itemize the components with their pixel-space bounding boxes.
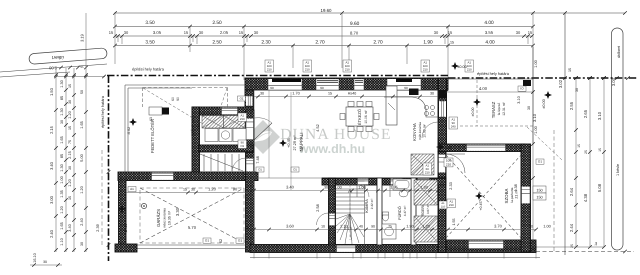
hall door tag xyxy=(444,158,453,167)
svg-text:90: 90 xyxy=(270,86,274,90)
svg-text:10.06 m²: 10.06 m² xyxy=(364,109,368,123)
door gap stairs west xyxy=(329,214,335,226)
hall door arc xyxy=(446,154,465,173)
svg-text:7.48: 7.48 xyxy=(256,156,260,163)
svg-text:1.20: 1.20 xyxy=(422,225,429,229)
wall interior horizontal xyxy=(322,178,446,185)
svg-text:NAPPALI: NAPPALI xyxy=(299,132,304,151)
svg-text:90: 90 xyxy=(404,86,408,90)
svg-text:építési hely határa: építési hely határa xyxy=(100,95,105,128)
wall bottom south xyxy=(250,245,536,253)
svg-text:fa lépcső: fa lépcső xyxy=(497,103,501,116)
garage cross diagonal 2 xyxy=(140,188,244,243)
right capsule utkert xyxy=(612,28,624,250)
road line with ticks xyxy=(0,64,107,72)
szelfogo closet 2 xyxy=(224,116,246,129)
svg-text:2.33: 2.33 xyxy=(449,182,453,189)
dim row overall 19.60 line xyxy=(115,12,625,14)
window tag 1 xyxy=(265,60,274,72)
svg-text:15: 15 xyxy=(528,30,533,35)
nappali i5 face line xyxy=(254,177,322,179)
svg-text:60: 60 xyxy=(171,97,175,101)
kitchen stove xyxy=(409,89,419,96)
window top 3 xyxy=(354,79,364,90)
svg-text:15: 15 xyxy=(568,68,572,72)
left cols top tick line xyxy=(56,76,105,78)
svg-text:1.20: 1.20 xyxy=(68,179,72,186)
svg-text:3.10: 3.10 xyxy=(597,111,602,120)
svg-text:O1: O1 xyxy=(538,160,542,164)
svg-text:1.00: 1.00 xyxy=(543,225,550,229)
svg-text:3.10: 3.10 xyxy=(517,96,521,103)
door gap interior 2 xyxy=(391,179,403,185)
svg-text:30: 30 xyxy=(529,225,533,229)
garderob closet top xyxy=(414,180,438,205)
garage west wall xyxy=(119,180,127,245)
furdo shower xyxy=(382,224,396,239)
dining chairs top xyxy=(348,102,354,107)
svg-text:30: 30 xyxy=(575,88,579,92)
svg-text:15: 15 xyxy=(183,188,187,192)
roof diagonal dashed xyxy=(527,127,562,160)
svg-text:4.47 m²: 4.47 m² xyxy=(403,206,407,217)
svg-text:1.20: 1.20 xyxy=(60,206,64,213)
svg-text:1.90: 1.90 xyxy=(406,225,413,229)
wall east kitchen xyxy=(438,78,447,144)
kitchen wall corner block xyxy=(439,90,447,98)
svg-text:30: 30 xyxy=(430,92,434,96)
svg-text:15: 15 xyxy=(184,30,189,35)
svg-text:2.05: 2.05 xyxy=(220,30,229,35)
svg-text:2.40: 2.40 xyxy=(49,229,54,238)
svg-text:30: 30 xyxy=(199,30,204,35)
svg-text:15: 15 xyxy=(80,65,84,69)
svg-text:3.19: 3.19 xyxy=(80,33,85,42)
szoba level star xyxy=(475,192,483,200)
roof dashed bottom right xyxy=(536,251,634,253)
svg-text:210: 210 xyxy=(425,170,430,174)
svg-text:1.65: 1.65 xyxy=(60,136,64,143)
west wall tags xyxy=(238,113,247,122)
svg-text:Ø .30: Ø .30 xyxy=(124,224,128,233)
svg-text:30: 30 xyxy=(254,30,259,35)
svg-text:210: 210 xyxy=(267,67,272,71)
inner face west wall xyxy=(253,90,255,245)
svg-text:KAMRA: KAMRA xyxy=(365,199,369,213)
svg-text:-0.02: -0.02 xyxy=(127,127,131,135)
right boundary vertical line xyxy=(564,13,566,255)
svg-text:O1: O1 xyxy=(238,239,242,243)
garage A1 tag xyxy=(128,187,136,192)
svg-text:2.44: 2.44 xyxy=(569,223,574,232)
svg-text:16.10: 16.10 xyxy=(33,253,37,263)
furdo tub xyxy=(393,179,411,190)
nappali level star xyxy=(279,139,287,147)
svg-text:5.00: 5.00 xyxy=(80,154,84,161)
porch column xyxy=(162,108,169,115)
garage dim row xyxy=(126,192,250,194)
roof dashed vertical right xyxy=(553,130,555,252)
svg-text:4.05 m²: 4.05 m² xyxy=(196,119,200,130)
wall kamra east xyxy=(377,178,382,245)
svg-text:2.10: 2.10 xyxy=(340,225,347,229)
svg-text:30: 30 xyxy=(245,226,249,230)
garage cross diagonal 1 xyxy=(140,188,244,243)
svg-text:15: 15 xyxy=(239,30,244,35)
svg-text:O1: O1 xyxy=(258,167,262,171)
right dim col x576 xyxy=(575,78,577,247)
szoba diag dashed xyxy=(446,155,521,238)
svg-text:3.60: 3.60 xyxy=(286,224,295,229)
svg-text:FEDETT ELŐTÉR: FEDETT ELŐTÉR xyxy=(150,119,155,153)
svg-text:63: 63 xyxy=(149,117,153,121)
svg-text:10.92 m²: 10.92 m² xyxy=(423,123,427,137)
window gap szoba north xyxy=(467,145,506,151)
furdo wc xyxy=(383,213,389,221)
svg-text:85: 85 xyxy=(60,154,64,158)
kitchen east window xyxy=(439,101,446,117)
porch roof dashed rect xyxy=(143,87,228,89)
dim row3 ticks xyxy=(113,34,534,38)
window gap szoba east xyxy=(522,187,531,204)
svg-text:4.00: 4.00 xyxy=(484,20,494,26)
porch hip dashes xyxy=(143,88,208,127)
dining chairs bottom xyxy=(348,127,354,132)
svg-text:210: 210 xyxy=(449,203,454,207)
svg-text:15: 15 xyxy=(109,30,114,35)
svg-text:30: 30 xyxy=(434,30,439,35)
wall szelfogo south xyxy=(199,145,253,152)
porch outline xyxy=(124,85,126,172)
svg-text:GARÁZS: GARÁZS xyxy=(156,209,161,227)
svg-text:IO: IO xyxy=(520,87,524,91)
svg-text:150: 150 xyxy=(536,189,542,193)
watermark logo diamond xyxy=(246,120,280,154)
svg-text:2.64: 2.64 xyxy=(569,187,574,196)
szoba entry star xyxy=(436,143,444,151)
svg-text:3.40: 3.40 xyxy=(68,224,72,231)
door gap garage north xyxy=(152,173,174,180)
svg-text:2.39: 2.39 xyxy=(96,224,100,231)
wall szelfogo west xyxy=(192,107,200,173)
svg-text:4.38: 4.38 xyxy=(514,184,518,191)
svg-text:1.30: 1.30 xyxy=(60,164,64,171)
svg-text:1.50: 1.50 xyxy=(49,87,54,96)
svg-text:A1: A1 xyxy=(130,187,134,191)
svg-text:85: 85 xyxy=(60,96,64,100)
garage dashed rect xyxy=(140,188,244,243)
svg-text:90: 90 xyxy=(371,225,375,229)
bottom O1 tags xyxy=(203,238,211,243)
window top 4 xyxy=(387,79,421,90)
window top 2 xyxy=(316,79,339,90)
dim row2 line xyxy=(115,26,533,28)
svg-text:SZOBA: SZOBA xyxy=(504,188,509,203)
window top 1 xyxy=(268,79,302,90)
interior door arcs xyxy=(357,185,430,197)
svg-text:+0.45: +0.45 xyxy=(443,146,452,150)
dining table xyxy=(346,107,373,126)
interior dim row y190 xyxy=(254,190,438,192)
svg-text:30: 30 xyxy=(68,166,72,170)
right level star xyxy=(544,91,552,99)
szoba ne tag xyxy=(536,159,544,164)
svg-text:90: 90 xyxy=(176,97,180,101)
svg-text:30: 30 xyxy=(80,242,84,246)
svg-text:TERASZ: TERASZ xyxy=(491,101,496,118)
kitchen counter xyxy=(384,97,438,117)
west wall upper window xyxy=(246,96,253,106)
svg-text:15: 15 xyxy=(68,196,72,200)
wall szelfogo north xyxy=(192,107,253,115)
svg-text:210: 210 xyxy=(305,67,310,71)
svg-text:210: 210 xyxy=(441,205,446,208)
svg-text:30: 30 xyxy=(43,260,47,264)
svg-text:4.52: 4.52 xyxy=(316,124,320,131)
svg-text:150: 150 xyxy=(536,196,542,200)
stairs winder fan xyxy=(336,214,364,244)
svg-text:3.40: 3.40 xyxy=(49,161,54,170)
svg-text:5.70: 5.70 xyxy=(188,225,197,230)
garage south edge xyxy=(115,244,250,246)
svg-text:±0.00: ±0.00 xyxy=(542,99,546,108)
svg-text:2.40: 2.40 xyxy=(80,218,84,225)
svg-text:1a: 1a xyxy=(594,242,598,246)
svg-text:25: 25 xyxy=(570,244,574,248)
svg-text:3.50: 3.50 xyxy=(145,20,155,26)
interior dim row y228 xyxy=(254,229,536,231)
svg-text:1.65: 1.65 xyxy=(60,222,64,229)
svg-text:KONYHA: KONYHA xyxy=(412,123,417,141)
wall szoba west xyxy=(438,152,446,253)
svg-text:210: 210 xyxy=(423,67,428,71)
svg-text:útkert: útkert xyxy=(51,54,64,60)
dim row overall ticks xyxy=(113,11,627,15)
dim row4 line xyxy=(115,45,533,47)
svg-text:1.00: 1.00 xyxy=(60,176,64,183)
svg-text:2.55: 2.55 xyxy=(569,101,574,110)
door gap interior 1 xyxy=(358,179,369,185)
svg-text:30: 30 xyxy=(60,120,64,124)
building limit line horizontal xyxy=(107,75,448,77)
svg-text:1 késle: 1 késle xyxy=(616,164,620,176)
svg-text:építési hely határa: építési hely határa xyxy=(477,71,510,76)
svg-text:1.00: 1.00 xyxy=(334,186,341,190)
svg-text:±0.00: ±0.00 xyxy=(471,108,475,117)
terrace level star xyxy=(473,98,481,106)
bottom ext drops xyxy=(253,253,255,259)
stairs side line xyxy=(364,185,366,245)
window tag 4 xyxy=(421,60,430,72)
svg-text:30: 30 xyxy=(260,92,264,96)
svg-text:15: 15 xyxy=(450,41,454,45)
szelfogo door arc xyxy=(232,158,246,172)
furdo basin xyxy=(399,190,408,197)
wall garage north xyxy=(118,172,258,181)
svg-text:5.00: 5.00 xyxy=(48,66,57,71)
porch level star xyxy=(129,118,137,126)
svg-text:50: 50 xyxy=(80,90,84,94)
left dim col x66 xyxy=(65,68,67,252)
svg-text:1.30: 1.30 xyxy=(60,108,64,115)
svg-text:1.30: 1.30 xyxy=(60,80,64,87)
terrace west dashed xyxy=(476,80,478,126)
svg-text:30: 30 xyxy=(191,188,195,192)
door gap szoba west xyxy=(439,155,446,173)
svg-text:FÜRDŐ: FÜRDŐ xyxy=(397,206,402,220)
svg-text:±0.00: ±0.00 xyxy=(457,65,466,69)
svg-text:2.15: 2.15 xyxy=(49,125,54,134)
svg-text:40: 40 xyxy=(359,225,363,229)
svg-text:O1: O1 xyxy=(293,167,297,171)
svg-text:+0.45: +0.45 xyxy=(287,138,291,148)
szelfogo closet 1 xyxy=(202,116,224,129)
entry steps xyxy=(203,154,205,171)
szoba west wall tag xyxy=(447,199,456,208)
svg-text:3.30: 3.30 xyxy=(175,207,180,216)
svg-text:O1: O1 xyxy=(205,239,209,243)
svg-text:15: 15 xyxy=(328,92,332,96)
terrace dim 4.00 xyxy=(446,91,533,93)
svg-text:2.50: 2.50 xyxy=(212,40,222,46)
svg-text:5.08: 5.08 xyxy=(597,183,602,192)
svg-text:210: 210 xyxy=(345,67,350,71)
east wall tag xyxy=(449,117,458,129)
svg-text:4.00: 4.00 xyxy=(485,40,495,46)
right dim col x604 xyxy=(603,78,605,247)
svg-text:30: 30 xyxy=(516,30,521,35)
svg-text:2.70: 2.70 xyxy=(373,40,383,46)
door gap szelfogo north xyxy=(222,108,238,115)
svg-text:15: 15 xyxy=(577,144,581,148)
terrace south dashed xyxy=(460,125,533,127)
window tag 5 xyxy=(465,60,474,72)
door gap west main xyxy=(246,119,254,140)
left dim col x86 xyxy=(85,13,87,252)
szelfogo washer row xyxy=(205,129,218,142)
svg-text:210: 210 xyxy=(240,117,245,121)
svg-text:10: 10 xyxy=(321,225,325,229)
svg-text:210: 210 xyxy=(467,67,472,71)
top extension lines xyxy=(114,12,116,64)
stairs walk arrow xyxy=(348,189,352,241)
garage west star xyxy=(118,205,126,213)
svg-text:1.20: 1.20 xyxy=(208,187,217,192)
svg-text:90: 90 xyxy=(320,86,324,90)
svg-text:19.35 m²: 19.35 m² xyxy=(168,210,172,225)
svg-text:építési hely határa: építési hely határa xyxy=(132,67,165,72)
svg-text:1.20: 1.20 xyxy=(80,186,84,193)
svg-text:O1: O1 xyxy=(240,96,244,100)
svg-text:mélt.kerámia: mélt.kerámia xyxy=(418,122,422,140)
window gap bottom 1 xyxy=(337,245,356,252)
svg-text:1.10: 1.10 xyxy=(60,238,64,245)
svg-text:3.55: 3.55 xyxy=(485,30,494,35)
svg-text:H≥40: H≥40 xyxy=(348,92,357,96)
svg-text:ÉTKEZŐ: ÉTKEZŐ xyxy=(357,109,362,125)
svg-text:3.87 m²: 3.87 m² xyxy=(426,204,430,214)
hall closet xbox xyxy=(411,154,434,175)
wall stairs west xyxy=(329,178,336,245)
svg-text:3.40: 3.40 xyxy=(286,185,295,190)
right dim col x590 xyxy=(589,78,591,247)
svg-text:útóbert: útóbert xyxy=(617,45,621,58)
svg-text:2.30: 2.30 xyxy=(261,40,271,46)
svg-text:2.58: 2.58 xyxy=(316,204,320,211)
svg-text:2.50: 2.50 xyxy=(212,20,222,26)
limit line crossing ticks xyxy=(563,76,630,80)
svg-text:8.70: 8.70 xyxy=(350,31,359,36)
svg-text:75: 75 xyxy=(388,225,392,229)
wall west main xyxy=(246,110,255,252)
dim row4 ticks xyxy=(113,44,535,48)
svg-text:27.29 m²: 27.29 m² xyxy=(293,135,297,151)
svg-text:3.70: 3.70 xyxy=(494,224,503,229)
svg-text:1.70: 1.70 xyxy=(292,92,299,96)
svg-text:1.33: 1.33 xyxy=(420,186,427,190)
svg-text:15: 15 xyxy=(448,30,453,35)
wall szoba east xyxy=(521,144,531,252)
svg-text:3.02: 3.02 xyxy=(558,79,563,88)
kitchen island xyxy=(386,86,397,125)
window tag 3 xyxy=(343,60,352,72)
window gap szoba south xyxy=(469,241,504,249)
inner face top wall xyxy=(254,89,439,91)
svg-text:+0.45: +0.45 xyxy=(479,201,483,210)
svg-text:www.dh.hu: www.dh.hu xyxy=(298,142,365,156)
svg-text:12.31 m²: 12.31 m² xyxy=(502,101,506,115)
svg-text:O1: O1 xyxy=(240,144,244,148)
svg-text:4.38: 4.38 xyxy=(583,193,588,202)
svg-text:3.00: 3.00 xyxy=(49,195,54,204)
dining chairs sides xyxy=(340,114,345,120)
svg-text:9.60: 9.60 xyxy=(350,21,360,27)
svg-text:1.20: 1.20 xyxy=(68,111,72,118)
svg-text:1.00: 1.00 xyxy=(534,60,538,67)
svg-text:1.35: 1.35 xyxy=(60,190,64,197)
road capsule xyxy=(29,48,108,65)
left dim col x56 xyxy=(55,68,57,252)
porch column footing xyxy=(149,107,162,115)
svg-text:15: 15 xyxy=(598,148,602,152)
dim row3 tick drops xyxy=(117,36,119,42)
svg-text:2.70: 2.70 xyxy=(315,40,325,46)
svg-text:75: 75 xyxy=(68,140,72,144)
garderob closet bottom xyxy=(414,216,438,242)
svg-text:30: 30 xyxy=(527,106,531,110)
wall west upper xyxy=(245,90,254,110)
svg-text:75: 75 xyxy=(235,149,239,153)
dim row2 ticks xyxy=(113,25,535,29)
stairs treads xyxy=(336,180,365,182)
svg-text:30: 30 xyxy=(324,186,328,190)
kitchen sink xyxy=(424,105,428,109)
svg-text:2.15: 2.15 xyxy=(68,151,72,158)
wall szoba north xyxy=(438,144,525,152)
svg-text:3.50: 3.50 xyxy=(145,40,155,46)
svg-text:1.35: 1.35 xyxy=(390,186,397,190)
door gap west lower xyxy=(246,159,254,172)
left dim col x74 xyxy=(73,68,75,252)
bottom outer line xyxy=(250,257,540,259)
svg-text:30: 30 xyxy=(68,100,72,104)
top level star xyxy=(451,62,459,70)
garage center circle xyxy=(141,203,146,208)
right dim col x533 xyxy=(532,100,534,247)
svg-text:4.00: 4.00 xyxy=(479,86,488,91)
door gap interior 3 xyxy=(418,179,430,185)
svg-text:62: 62 xyxy=(219,239,223,243)
